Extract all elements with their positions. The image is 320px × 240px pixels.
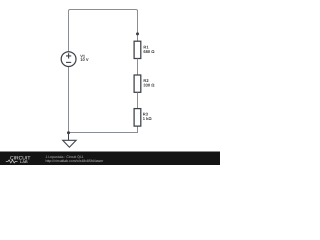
label R2 330 ohm bbox=[143, 78, 155, 88]
svg-text:http://circuitlab.com/c/e48c85: http://circuitlab.com/c/e48c85fd4awer bbox=[46, 159, 105, 163]
node A junction dot bbox=[136, 32, 139, 35]
svg-text:LAB: LAB bbox=[20, 159, 28, 164]
node B junction dot bbox=[67, 131, 70, 134]
voltage source V1 bbox=[61, 52, 76, 67]
svg-text:680 Ω: 680 Ω bbox=[143, 49, 155, 54]
svg-text:330 Ω: 330 Ω bbox=[143, 83, 155, 88]
wire: R2 pin 2 to R3 pin 1 bbox=[137, 93, 139, 109]
wire: R1 pin 2 to R2 pin 1 bbox=[137, 59, 139, 76]
label V1 10 V bbox=[80, 53, 89, 61]
ground bbox=[68, 133, 70, 140]
resistor R3 bbox=[134, 109, 141, 127]
resistor R2 bbox=[134, 75, 141, 92]
wire: V1 positive terminal up, across top, down to node A bbox=[69, 10, 138, 52]
CircuitLab logo bbox=[6, 156, 31, 164]
label R1 680 ohm bbox=[143, 44, 155, 54]
wire: V1 negative terminal down to node B bbox=[68, 67, 70, 134]
wire: node B across bottom, up to R3 pin 2 bbox=[69, 126, 138, 133]
resistor R1 bbox=[134, 41, 141, 58]
svg-text:10 V: 10 V bbox=[80, 57, 89, 62]
wire: node A to R1 pin 1 bbox=[137, 34, 139, 42]
label R3 1 kohm bbox=[143, 112, 153, 121]
footer bar bbox=[0, 152, 220, 166]
svg-text:1 kΩ: 1 kΩ bbox=[143, 116, 153, 121]
